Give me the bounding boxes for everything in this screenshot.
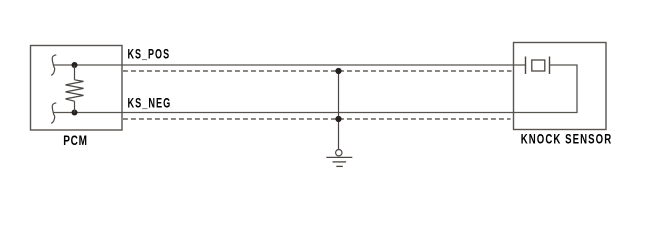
svg-text:KNOCK SENSOR: KNOCK SENSOR (521, 131, 613, 146)
shield wire top (dashed) (123, 70, 512, 72)
piezo element (knock sensor internal) (526, 57, 550, 75)
junction dot shield top (335, 68, 341, 74)
junction dot shield bottom (335, 116, 341, 122)
junction dot on KS_POS in PCM (72, 62, 78, 68)
knock sensor internal wire (right plate down to KS_NEG) (514, 65, 578, 113)
ground symbol (326, 150, 352, 167)
junction dot on KS_NEG in PCM (72, 110, 78, 116)
PCM box (31, 46, 123, 131)
PCM label (63, 133, 88, 148)
shield drain wire (vertical, to ground) (338, 71, 340, 150)
wire KS_POS (solid, PCM to knock sensor piezo left plate) (54, 64, 526, 66)
svg-text:KS_NEG: KS_NEG (128, 95, 172, 110)
svg-text:KS_POS: KS_POS (128, 46, 171, 61)
svg-text:PCM: PCM (63, 133, 88, 148)
knock sensor box (514, 43, 607, 130)
KS_NEG net label (128, 95, 172, 110)
KS_POS net label (128, 46, 171, 61)
wire KS_NEG (solid, PCM to knock sensor box) (54, 112, 514, 114)
wire-break squiggle on KS_NEG inside PCM (51, 103, 56, 124)
resistor (PCM internal, between KS_POS and KS_NEG) (66, 65, 84, 113)
shield wire bottom (dashed) (123, 118, 511, 120)
wire-break squiggle on KS_POS inside PCM (51, 55, 56, 76)
KNOCK SENSOR label (521, 131, 613, 146)
